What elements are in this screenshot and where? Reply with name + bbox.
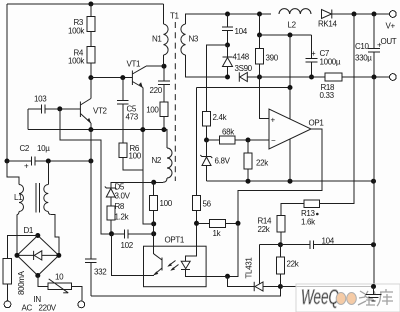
resistor R3 100k: [87, 17, 95, 32]
wire 2.4k bottom: [206, 126, 208, 140]
svg-text:220V: 220V: [39, 304, 57, 312]
wire bottom return: [91, 287, 281, 297]
diode 4148: [223, 45, 250, 77]
node collector/N1 junction: [162, 64, 167, 69]
svg-text:2.4k: 2.4k: [213, 113, 228, 122]
svg-text:100k: 100k: [68, 27, 85, 36]
capacitor C10 330u: [355, 14, 382, 77]
svg-text:C10: C10: [355, 42, 370, 51]
node 104 tap: [225, 12, 230, 17]
capacitor C7 1000u: [306, 35, 341, 77]
wire N3 top lead: [186, 14, 272, 24]
svg-text:WeeQ: WeeQ: [301, 286, 339, 309]
svg-text:D5: D5: [115, 183, 125, 192]
node 390 top tap: [257, 12, 262, 17]
wire base wire to VT1: [91, 77, 132, 79]
svg-text:N3: N3: [189, 35, 199, 44]
svg-text:22k: 22k: [256, 159, 269, 168]
resistor R8 1.2k: [107, 206, 115, 220]
resistor R18 0.33: [325, 73, 342, 81]
node R14/22k/104: [278, 242, 283, 247]
wire 100 bottom: [163, 117, 165, 130]
core T1 dashed line: [174, 22, 176, 181]
resistor 390: [256, 49, 264, 65]
svg-text:L2: L2: [288, 21, 297, 30]
node 1k/output column: [236, 221, 241, 226]
svg-text:22k: 22k: [287, 260, 300, 269]
wire 103-node jog down to R8 node: [60, 109, 112, 234]
wire 90 column down: [90, 130, 92, 161]
node N2 top junction: [162, 127, 167, 132]
capacitor 103: [28, 95, 80, 114]
node inverting input node: [246, 138, 251, 143]
node R8/102 node: [109, 231, 114, 236]
wire bridge top to fuse: [7, 236, 38, 259]
wire rail corner into N1: [163, 4, 165, 24]
resistor 22k (inverting): [244, 140, 269, 181]
resistor R14 22k: [258, 216, 286, 245]
wire R3-R4: [90, 32, 92, 47]
bridge D1: [15, 226, 62, 278]
wire 100 leads: [153, 182, 155, 195]
wire rail2: [197, 87, 291, 89]
wire rail3: [207, 180, 374, 182]
optocoupler OPT1 box: [144, 246, 207, 287]
node C7/rail1: [309, 75, 314, 80]
node rail3/ground column: [371, 179, 376, 184]
wire opto emitter drop: [112, 234, 153, 276]
svg-text:330µ: 330µ: [355, 54, 372, 63]
svg-text:100: 100: [129, 152, 142, 161]
node 56/1k: [194, 221, 199, 226]
capacitor C2 10u: [7, 144, 91, 171]
wire feedback wire y130: [28, 129, 164, 131]
node rail2/supply: [288, 85, 293, 90]
wire to op-amp minus: [248, 139, 269, 141]
svg-text:3S90: 3S90: [235, 64, 253, 73]
node nodeA: [257, 33, 262, 38]
svg-text:AC: AC: [22, 304, 33, 312]
wire N2 bottom lead: [154, 181, 163, 183]
svg-text:104: 104: [235, 27, 248, 36]
wire 4148 anode to 2.4k column: [207, 45, 228, 112]
node LED cathode node: [225, 274, 230, 279]
node VT1 base node: [88, 75, 93, 80]
svg-text:1.6k: 1.6k: [301, 218, 316, 227]
wire R8 bottom: [110, 220, 112, 234]
svg-text:104: 104: [322, 237, 335, 246]
node rail/R3 junction: [88, 2, 93, 7]
inductor L1 common-mode choke: [14, 161, 59, 255]
phototransistor: [153, 246, 162, 275]
fuse 800mA: [3, 259, 26, 302]
svg-text:4148: 4148: [233, 53, 250, 62]
node 22k/rail3: [246, 179, 251, 184]
wire +input from rail1: [260, 77, 270, 119]
resistor R4 100k: [87, 47, 95, 64]
wire R4 bottom lead: [90, 63, 92, 78]
svg-text:N1: N1: [152, 35, 162, 44]
node 2.4k/68k/zener: [204, 138, 209, 143]
wire R18 to OUT-: [342, 76, 390, 78]
capacitor 104 (feedback): [280, 237, 373, 250]
wire VT2 collector: [90, 78, 92, 99]
svg-text:R8: R8: [115, 202, 125, 211]
svg-text:+: +: [24, 162, 29, 171]
wire V+ rail after RK14: [332, 13, 390, 15]
wire 103 left leg down to feedback wire: [27, 109, 29, 130]
svg-text:VT1: VT1: [127, 60, 142, 69]
wire R6 bottom into emitter column: [123, 158, 143, 171]
wire 390 top lead: [259, 14, 261, 35]
wire R3 top lead: [90, 4, 92, 17]
resistor 56: [193, 195, 201, 210]
inductor L2: [279, 9, 311, 14]
fake CJK 库: [377, 289, 393, 306]
winding N3: [181, 24, 186, 55]
svg-text:3.0V: 3.0V: [115, 192, 131, 201]
svg-text:10: 10: [55, 273, 64, 282]
diode 3S90: [235, 64, 260, 82]
wire anode to ground column: [280, 286, 373, 288]
resistor 100 (collector snubber): [160, 102, 168, 117]
svg-text:TL431: TL431: [245, 257, 254, 279]
wire N3 bottom lead: [186, 55, 228, 77]
node N2/100 junction: [151, 180, 156, 185]
svg-text:V+: V+: [386, 22, 396, 31]
svg-text:+: +: [271, 116, 276, 125]
svg-text:VT2: VT2: [93, 107, 108, 116]
node 4148/rail1: [225, 75, 230, 80]
svg-text:RK14: RK14: [318, 20, 338, 29]
op-amp OP1: [269, 109, 324, 149]
diode RK14: [318, 10, 338, 29]
fake CJK 维: [358, 291, 375, 305]
wire opto emitter exit: [144, 274, 155, 276]
svg-text:OUT: OUT: [381, 37, 397, 46]
wire left 182 wire to D5: [111, 182, 154, 188]
wire ref jog: [259, 244, 280, 246]
svg-text:100: 100: [160, 199, 173, 208]
node emitter-col/100 bottom: [151, 221, 156, 226]
capacitor C5 473: [117, 78, 139, 143]
wire VT1 collector to N1: [146, 65, 164, 67]
node VT2 emitter junction: [88, 127, 93, 132]
svg-text:1000µ: 1000µ: [320, 58, 341, 67]
node C2/90col: [88, 159, 93, 164]
svg-text:OPT1: OPT1: [165, 236, 185, 245]
node V+/R13 column: [352, 12, 357, 17]
svg-text:+: +: [311, 49, 316, 58]
node nodeA/opamp supply tap: [288, 33, 293, 38]
resistor 22k (lower): [276, 245, 299, 287]
thermistor 10: [38, 273, 82, 302]
wire 56 column from rail2: [196, 88, 198, 196]
wire rail1 to R18: [260, 76, 326, 78]
node 103/VT2 base node: [57, 106, 62, 111]
diode D5 zener 3.0V: [105, 183, 131, 207]
winding N1: [164, 24, 169, 55]
svg-text:1k: 1k: [213, 229, 222, 238]
wire top rail: [7, 3, 164, 5]
wire opamp supply column: [289, 35, 291, 88]
terminal AC left: [4, 301, 11, 308]
node C2/L1 right: [46, 159, 51, 164]
capacitor 104: [222, 14, 248, 45]
wire N1 bottom lead: [163, 55, 166, 66]
transistor VT2: [80, 99, 107, 124]
winding N2: [164, 130, 167, 148]
svg-text:56: 56: [203, 200, 212, 209]
wire to TL431 cathode: [228, 276, 255, 286]
regulator TL431: [245, 245, 281, 292]
node 390 bottom / +in: [257, 75, 262, 80]
svg-text:10µ: 10µ: [37, 144, 50, 153]
capacitor 332: [85, 259, 107, 296]
resistor 100 (under N2): [150, 196, 158, 211]
wire opamp V+ pin: [289, 88, 291, 120]
node 102/photocollector node: [151, 231, 156, 236]
node TL431 anode/22k: [278, 284, 283, 289]
wire opamp V- pin to rail3: [289, 139, 291, 181]
terminal AC right: [78, 301, 85, 308]
node 4148 anode tap: [225, 43, 230, 48]
resistor 1k: [197, 219, 239, 238]
svg-text:D1: D1: [24, 226, 34, 235]
resistor 68k: [207, 128, 249, 145]
capacitor 102: [112, 230, 154, 251]
svg-text:−: −: [271, 136, 276, 145]
node C5 tap: [120, 75, 125, 80]
capacitor 220: [150, 66, 171, 102]
svg-text:C2: C2: [20, 144, 30, 153]
wire VT2 emitter: [90, 123, 92, 130]
svg-text:800mA: 800mA: [17, 270, 26, 295]
svg-text:T1: T1: [170, 12, 180, 21]
svg-text:332: 332: [94, 268, 107, 277]
transistor VT1: [127, 60, 147, 89]
node border/C2: [5, 159, 10, 164]
svg-text:220: 220: [150, 86, 163, 95]
opto light arrows: [167, 261, 178, 271]
node C10/out rail: [372, 75, 377, 80]
node ground column bottom: [371, 284, 376, 289]
wire VT1 emitter column: [143, 88, 154, 224]
node opamp Vminus/rail3: [288, 179, 293, 184]
svg-text:473: 473: [126, 113, 139, 122]
wire border into L1 left: [7, 161, 19, 185]
svg-text:68k: 68k: [222, 128, 235, 137]
svg-text:6.8V: 6.8V: [215, 157, 231, 166]
wire down to opto cathode node: [228, 223, 239, 276]
terminal OUT-: [390, 74, 397, 81]
svg-text:1.2k: 1.2k: [115, 213, 130, 222]
node V+/C10: [372, 12, 377, 17]
ground (over watermark): [366, 284, 382, 301]
resistor R13 1.6k: [281, 14, 354, 227]
terminal V+: [390, 11, 397, 18]
wire nodeA horizontal: [260, 34, 312, 36]
svg-text:22k: 22k: [258, 225, 271, 234]
svg-text:103: 103: [34, 95, 47, 104]
wire left border: [6, 4, 8, 161]
diode zener 6.8V: [200, 140, 230, 181]
opto LED: [181, 246, 227, 276]
node VT1 emitter junction: [140, 127, 145, 132]
node 104/ground column: [371, 242, 376, 247]
svg-text:OP1: OP1: [309, 119, 325, 128]
watermark: [296, 284, 400, 312]
svg-text:100k: 100k: [68, 57, 85, 66]
wire ground column: [373, 77, 375, 287]
ground: [366, 287, 382, 301]
svg-text:+: +: [377, 41, 382, 50]
wire opamp output: [238, 129, 322, 223]
resistor 2.4k: [203, 112, 211, 127]
svg-text:0.33: 0.33: [320, 91, 335, 100]
svg-text:100: 100: [146, 106, 159, 115]
svg-text:390: 390: [266, 54, 279, 63]
svg-text:N2: N2: [152, 156, 162, 165]
svg-text:102: 102: [121, 241, 134, 250]
resistor R6 100: [119, 143, 127, 158]
